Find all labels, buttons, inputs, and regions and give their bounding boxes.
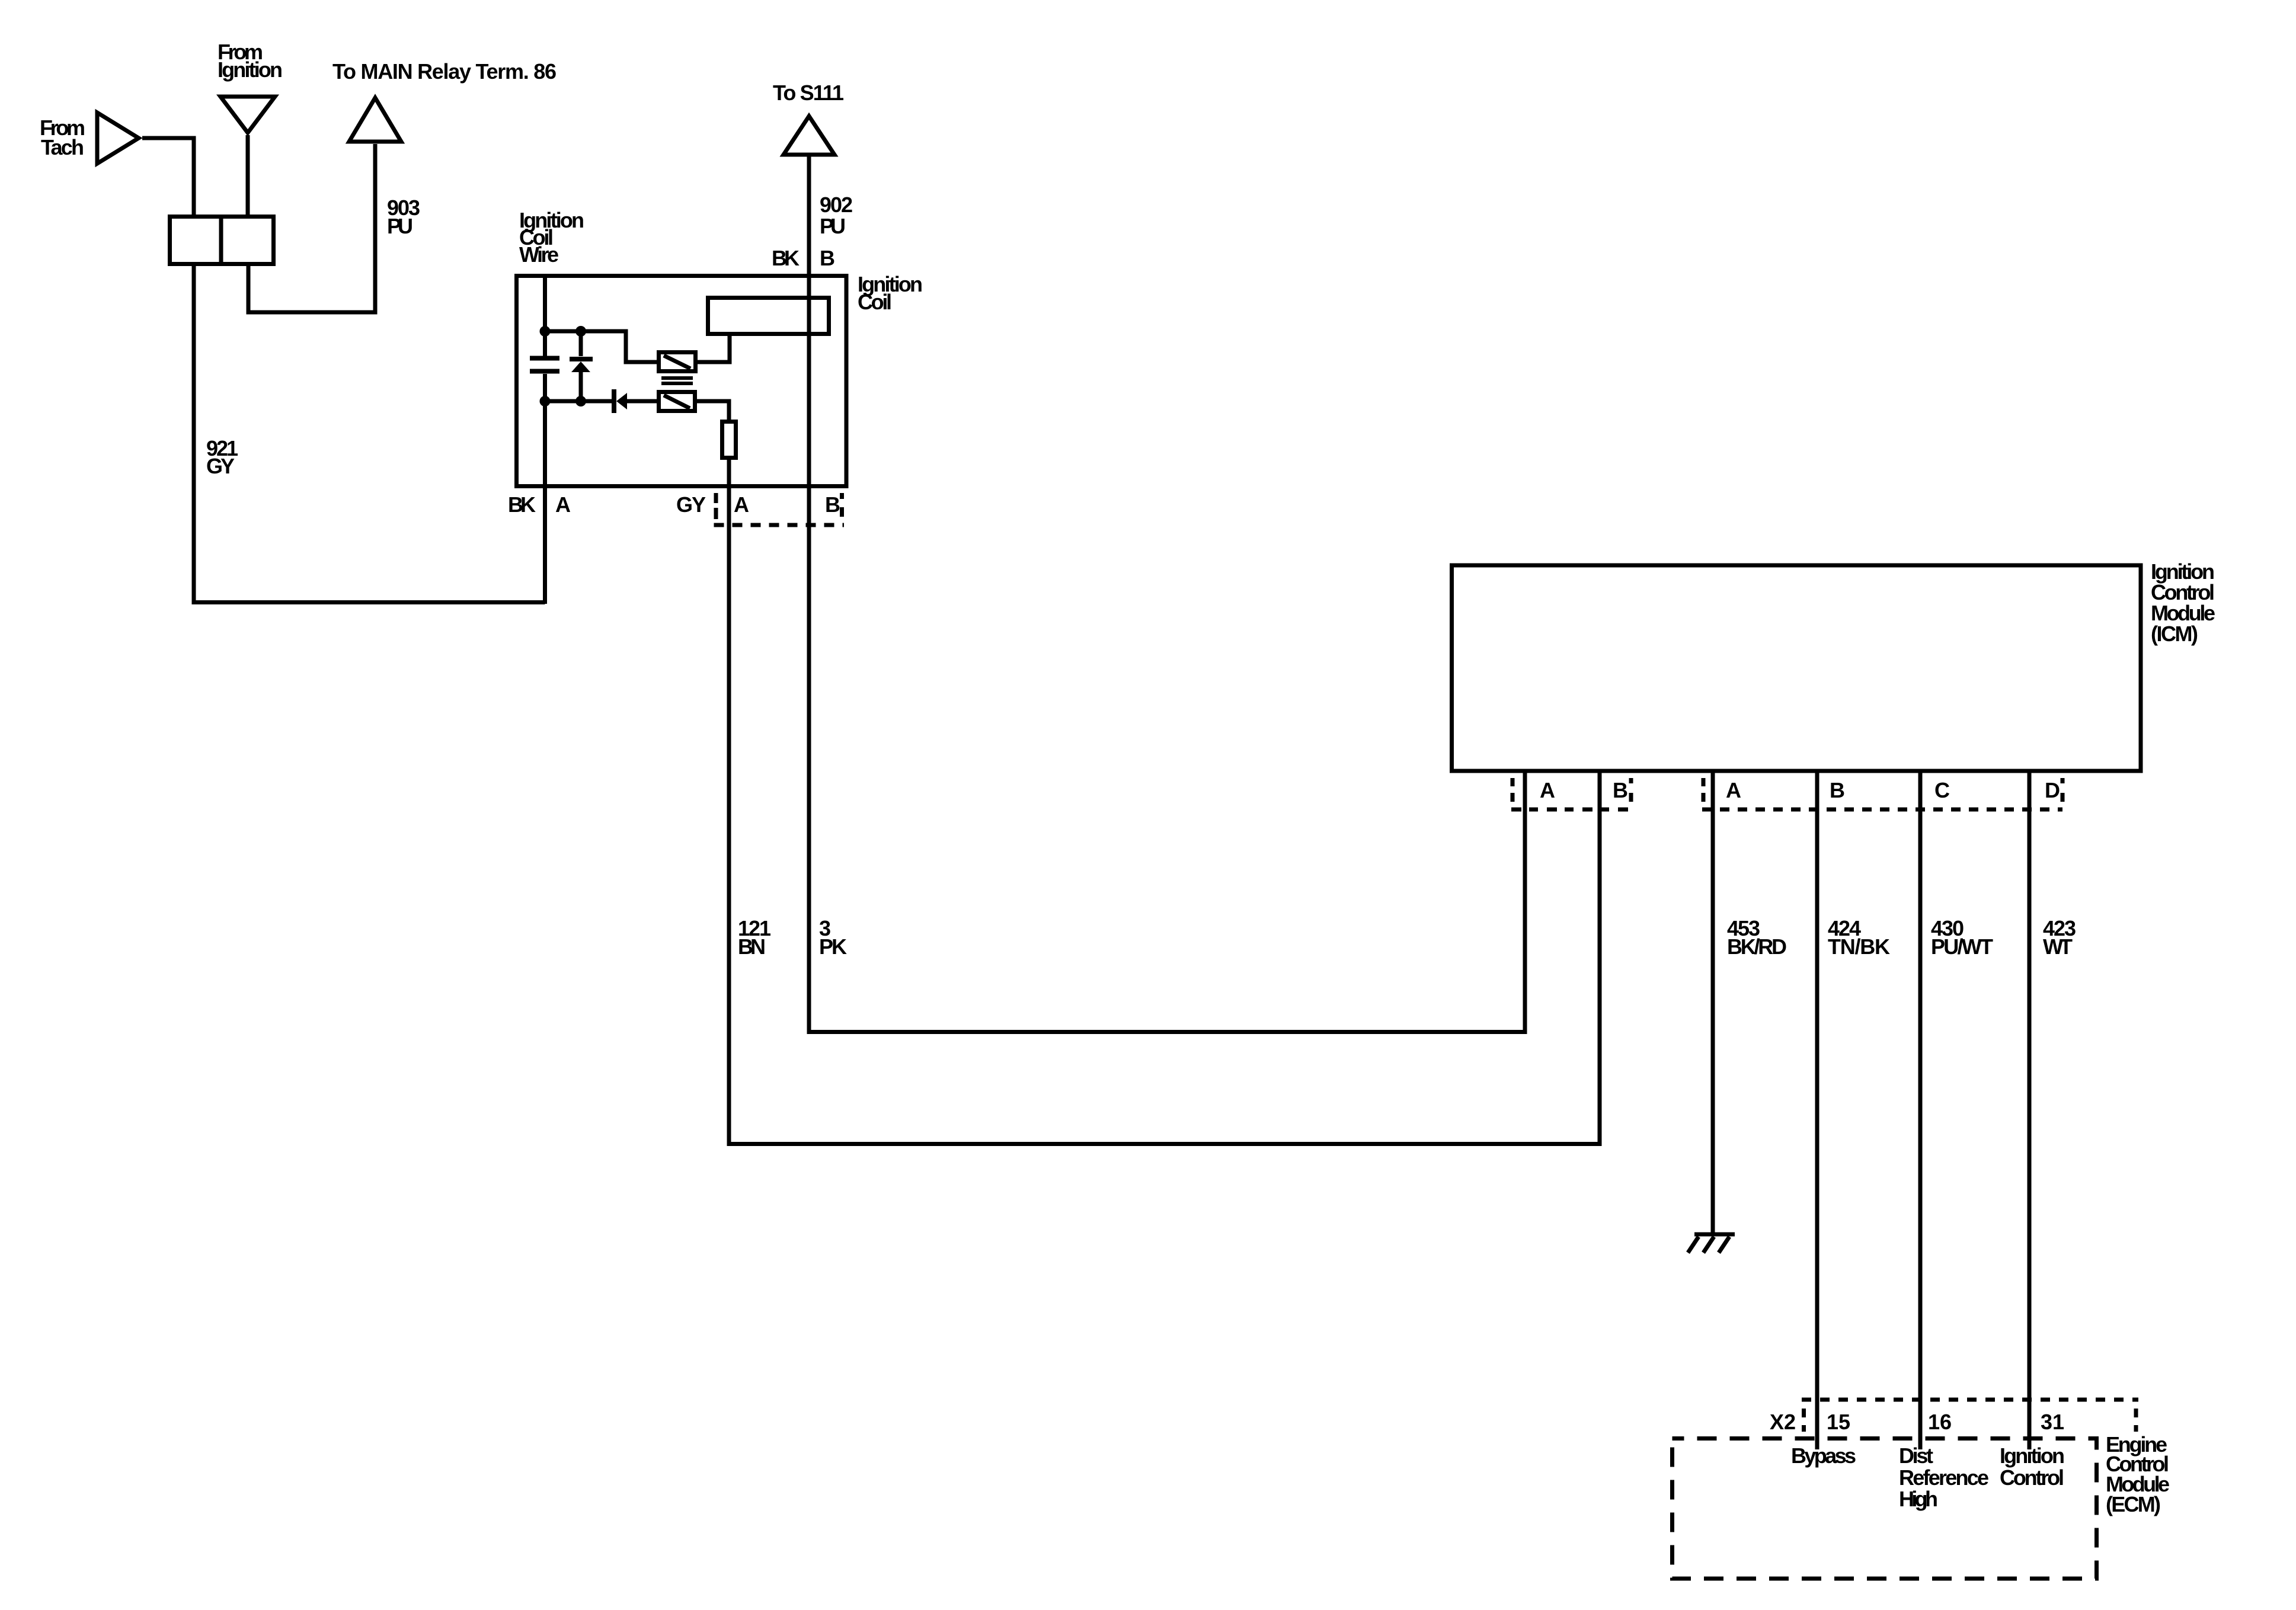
wire: From Tach to inline connector	[142, 138, 194, 217]
ignition coil box	[517, 276, 847, 486]
svg-text:X2: X2	[1770, 1410, 1796, 1434]
pickup coil winding	[659, 392, 695, 411]
resistor	[722, 422, 736, 458]
svg-text:A: A	[1726, 778, 1741, 802]
svg-text:BN: BN	[738, 934, 766, 959]
svg-text:A: A	[555, 492, 571, 517]
label: Ignition Coil	[858, 272, 923, 314]
svg-text:B: B	[820, 246, 835, 270]
wire label: 902 PU	[820, 193, 853, 238]
connector (dashed) at coil pins A/B	[714, 493, 845, 525]
svg-text:(ICM): (ICM)	[2151, 622, 2198, 646]
svg-text:To S111: To S111	[773, 81, 844, 105]
wire 903 PU: inline connector to MAIN relay triangle	[248, 144, 375, 312]
connector symbol: To MAIN Relay (up-pointing triangle)	[349, 98, 401, 142]
svg-text:31: 31	[2041, 1410, 2064, 1434]
svg-text:Tach: Tach	[41, 135, 84, 159]
capacitor (condenser)	[530, 359, 559, 372]
svg-text:Ignition: Ignition	[2000, 1443, 2065, 1468]
ignition coil secondary (HV) winding	[708, 298, 829, 334]
inline connector (2-cavity)	[170, 216, 274, 264]
wire label: 921 GY	[206, 436, 238, 478]
wire label: 3 PK	[819, 916, 847, 959]
node label: From Tach	[40, 116, 85, 159]
junction dot	[540, 396, 551, 406]
pin function label: Ignition Control	[2000, 1443, 2065, 1490]
ECM connector X2 (dashed)	[1802, 1400, 2138, 1432]
wire 430 PU/WT: ICM pin C to ECM pin 16	[1918, 771, 1923, 1449]
svg-text:Coil: Coil	[858, 290, 892, 314]
wire label: 903 PU	[387, 196, 420, 238]
svg-text:D: D	[2045, 778, 2060, 802]
svg-text:To MAIN Relay Term. 86: To MAIN Relay Term. 86	[332, 59, 557, 84]
node label: From Ignition	[218, 40, 283, 82]
svg-text:Bypass: Bypass	[1791, 1443, 1856, 1468]
label: Ignition Control Module (ICM)	[2151, 559, 2215, 646]
wire: coil pin A feed (upper segment)	[543, 276, 547, 356]
label: Engine Control Module (ECM)	[2106, 1432, 2170, 1516]
svg-text:A: A	[1540, 778, 1555, 802]
svg-text:C: C	[1934, 778, 1950, 802]
wire 121 BN: resistor through coil pin A to ICM pin B	[729, 457, 1600, 1144]
Ignition Control Module (ICM) box	[1452, 565, 2141, 771]
svg-text:Control: Control	[2000, 1465, 2064, 1490]
wire 423 WT: ICM pin D to ECM pin 31	[2028, 771, 2032, 1449]
wire: coil pin A feed (lower segment through box bottom)	[543, 374, 547, 604]
svg-text:PU: PU	[387, 214, 413, 238]
connector symbol: To S111 (up-pointing triangle)	[784, 116, 834, 155]
svg-text:A: A	[734, 492, 749, 517]
wire 921 GY: inline connector to ignition coil pin A	[194, 266, 545, 603]
ground (chassis) symbol	[1688, 1234, 1735, 1253]
svg-text:B: B	[1613, 778, 1628, 802]
svg-text:902: 902	[820, 193, 853, 217]
wire: upper internal branch	[545, 331, 660, 362]
svg-text:BK/RD: BK/RD	[1727, 934, 1787, 959]
svg-text:BK: BK	[772, 246, 800, 270]
wire label: 424 TN/BK	[1828, 916, 1890, 959]
wire: lower internal branch	[545, 399, 613, 404]
wire label: 453 BK/RD	[1727, 916, 1787, 959]
label: Ignition Coil Wire	[519, 208, 584, 267]
zener diode (vertical, pointing up)	[570, 331, 593, 401]
wire label: 423 WT	[2043, 916, 2076, 959]
wire 453 BK/RD: ICM pin A to ground	[1711, 771, 1715, 1233]
ICM connector 2 (dashed)	[1702, 778, 2062, 809]
wire: From Ignition to inline connector	[246, 135, 250, 217]
wire label: 121 BN	[738, 916, 771, 959]
junction dot	[575, 326, 586, 337]
diode (pointing left)	[614, 389, 659, 413]
svg-text:B: B	[825, 492, 840, 517]
junction dot	[540, 326, 551, 337]
svg-text:PU: PU	[820, 214, 846, 238]
wire 902 PU / 3 PK: To S111 through coil pin B to ICM pin A	[809, 156, 1525, 1032]
svg-text:Wire: Wire	[519, 242, 559, 267]
svg-text:15: 15	[1827, 1410, 1850, 1434]
junction dot	[575, 396, 586, 406]
svg-text:GY: GY	[206, 454, 235, 478]
ignition coil primary winding	[659, 353, 696, 372]
svg-text:Reference: Reference	[1899, 1465, 1989, 1490]
Engine Control Module (ECM) dashed box	[1673, 1439, 2097, 1579]
wire: pickup coil to resistor	[695, 401, 729, 422]
ICM connector 1 (dashed)	[1511, 778, 1632, 809]
wire 424 TN/BK: ICM pin B to ECM pin 15	[1815, 771, 1819, 1449]
wire label: 430 PU/WT	[1931, 916, 1993, 959]
svg-text:BK: BK	[508, 492, 536, 517]
svg-text:GY: GY	[676, 492, 706, 517]
magnetic core	[661, 378, 693, 383]
svg-text:Dist: Dist	[1899, 1443, 1933, 1468]
svg-text:PK: PK	[819, 934, 847, 959]
svg-text:(ECM): (ECM)	[2106, 1492, 2161, 1516]
pin function label: Dist Reference High	[1899, 1443, 1989, 1511]
wire: primary winding to secondary	[695, 336, 730, 362]
connector symbol: From Ignition (down-pointing triangle)	[220, 97, 275, 133]
svg-text:PU/WT: PU/WT	[1931, 934, 1993, 959]
svg-text:B: B	[1830, 778, 1845, 802]
connector symbol: From Tach (right-pointing triangle)	[97, 113, 139, 164]
svg-text:High: High	[1899, 1487, 1938, 1511]
svg-text:TN/BK: TN/BK	[1828, 934, 1890, 959]
svg-text:WT: WT	[2043, 934, 2073, 959]
svg-text:16: 16	[1928, 1410, 1952, 1434]
svg-text:Ignition: Ignition	[218, 57, 283, 82]
